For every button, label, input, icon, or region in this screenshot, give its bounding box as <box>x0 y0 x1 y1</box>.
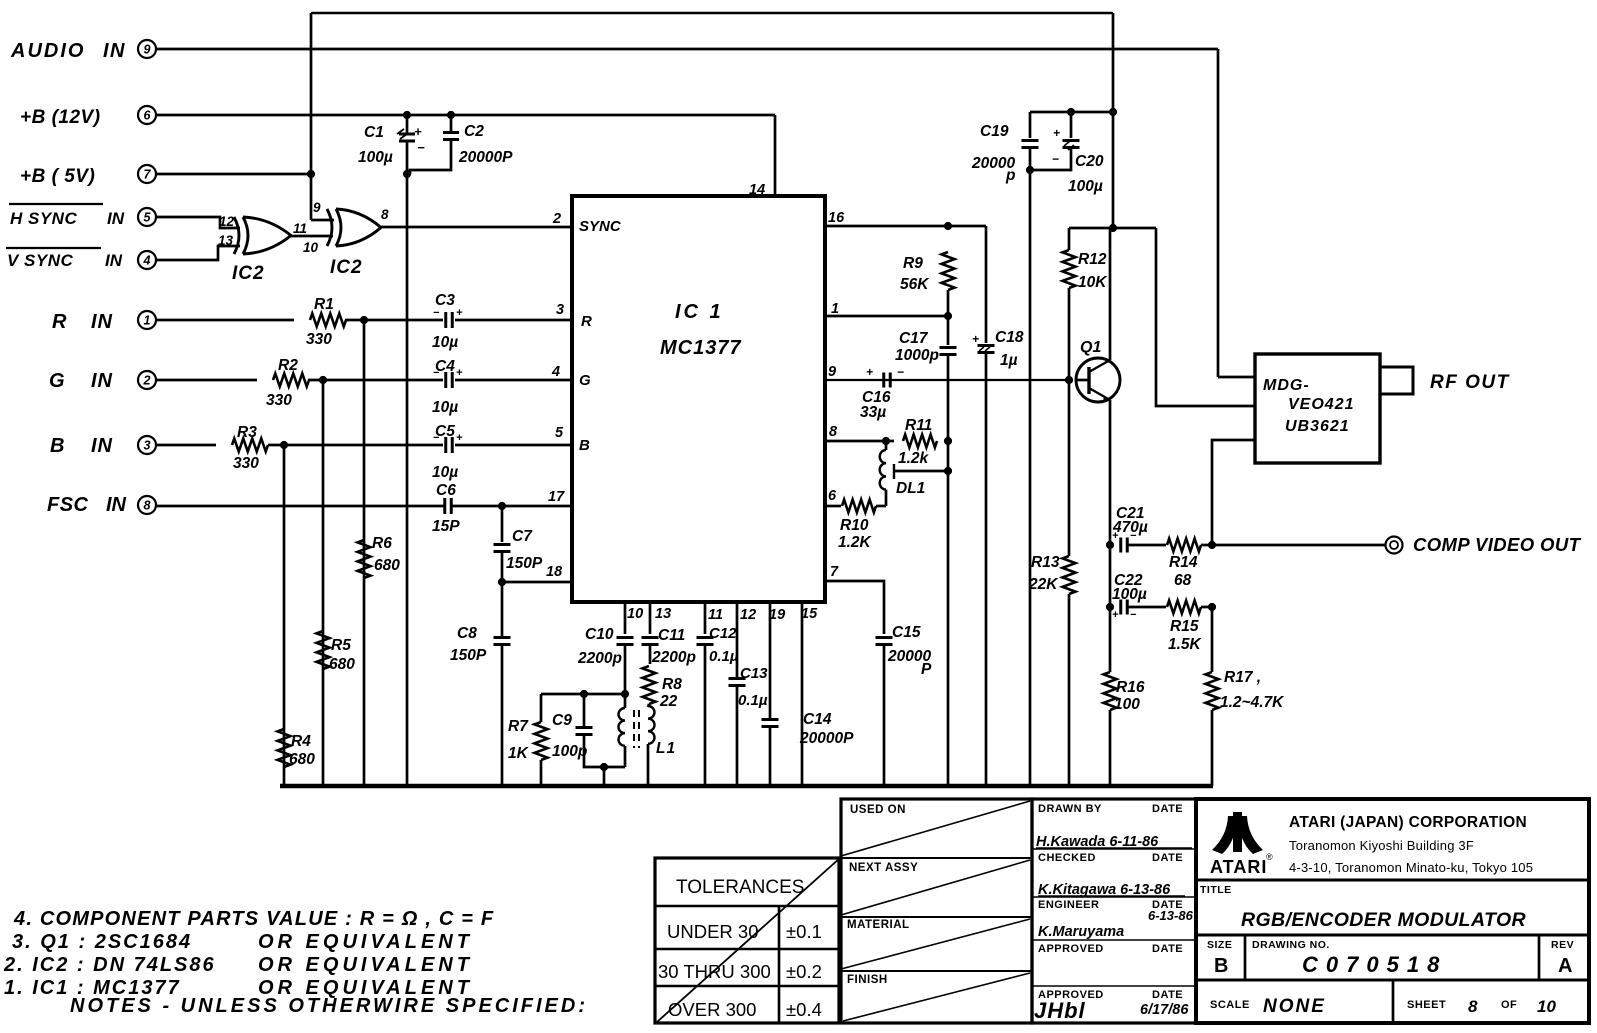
resistor R1 <box>310 314 346 327</box>
wire C13 to rail <box>736 686 739 786</box>
svg-text:R15: R15 <box>1170 618 1199 635</box>
wire Q1 emitter <box>1109 400 1112 545</box>
svg-text:+: + <box>866 365 873 379</box>
svg-text:IN: IN <box>105 251 123 270</box>
svg-text:®: ® <box>1266 852 1273 862</box>
junction C21 in <box>1106 541 1113 548</box>
junction DL1 top <box>882 437 889 444</box>
svg-text:DATE: DATE <box>1152 989 1183 1001</box>
svg-text:G: G <box>49 370 65 392</box>
wire emitter column C21-C22 <box>1109 545 1112 607</box>
svg-text:RF OUT: RF OUT <box>1430 372 1510 393</box>
svg-text:330: 330 <box>306 331 332 348</box>
svg-text:C3: C3 <box>435 292 455 309</box>
svg-text:1K: 1K <box>508 745 530 762</box>
wire R12 to base node <box>1068 288 1071 380</box>
capacitor C9 (100p) <box>576 726 593 729</box>
junction C20 top <box>1067 108 1074 115</box>
wire R14 to video node <box>1201 544 1212 547</box>
wire C9 bottom to ground tap <box>584 735 625 767</box>
wire C3 to pin3 <box>455 319 572 322</box>
svg-text:NONE: NONE <box>1263 996 1326 1017</box>
svg-text:B: B <box>50 435 64 457</box>
svg-text:2200p: 2200p <box>577 650 622 667</box>
junction C9 top <box>580 690 587 697</box>
svg-text:680: 680 <box>329 656 355 673</box>
svg-text:IN: IN <box>106 494 127 516</box>
gate IC2b XOR (pins 9,10,8) <box>327 209 332 246</box>
junction x1113 at C19 rail <box>1109 108 1116 115</box>
svg-text:DRAWING NO.: DRAWING NO. <box>1252 939 1330 951</box>
svg-text:R2: R2 <box>278 357 298 374</box>
svg-text:C8: C8 <box>457 625 477 642</box>
svg-text:680: 680 <box>289 751 315 768</box>
svg-text:Q1: Q1 <box>1080 339 1101 356</box>
wire pin10 column <box>624 602 627 634</box>
junction R node <box>360 316 367 323</box>
wire +5V vertical x1113 <box>1112 13 1115 228</box>
svg-text:B: B <box>1214 955 1228 977</box>
wire C9 column <box>583 694 586 727</box>
svg-text:OVER 300: OVER 300 <box>668 999 756 1020</box>
svg-text:1.2~4.7K: 1.2~4.7K <box>1220 694 1285 711</box>
svg-text:470µ: 470µ <box>1112 519 1148 536</box>
svg-text:6-13-86: 6-13-86 <box>1148 908 1194 923</box>
svg-text:±0.1: ±0.1 <box>786 921 822 942</box>
svg-text:SIZE: SIZE <box>1207 939 1232 951</box>
svg-text:R1: R1 <box>314 296 334 313</box>
svg-text:C10: C10 <box>585 626 614 643</box>
wire R2 to C4 <box>308 379 443 382</box>
svg-text:C17: C17 <box>899 330 929 347</box>
wire R7/C9/L1 tie <box>541 693 625 696</box>
svg-text:MATERIAL: MATERIAL <box>847 919 910 931</box>
svg-text:1.2K: 1.2K <box>838 534 873 551</box>
svg-text:8: 8 <box>1468 997 1478 1016</box>
resistor R7 <box>535 722 548 760</box>
wire DL1 tap <box>894 470 948 473</box>
svg-text:−: − <box>1130 609 1137 621</box>
resistor R11 <box>903 435 937 448</box>
wire R node dropper x364 <box>363 320 366 786</box>
svg-text:10µ: 10µ <box>432 399 458 416</box>
wire +5V vertical x311 <box>310 13 313 220</box>
junction FSC/C7 node <box>498 502 505 509</box>
wire audio in horizontal <box>156 48 1218 51</box>
wire R12 top rail <box>1069 227 1156 230</box>
junction pin18 node <box>498 578 505 585</box>
capacitor C6 (15P) <box>443 498 446 514</box>
svg-text:4: 4 <box>143 254 151 268</box>
svg-text:L1: L1 <box>656 740 676 757</box>
svg-text:6/17/86: 6/17/86 <box>1140 1002 1189 1018</box>
svg-text:R3: R3 <box>237 424 257 441</box>
used-on box frame <box>841 799 1032 1023</box>
svg-text:100p: 100p <box>552 743 587 760</box>
svg-text:15P: 15P <box>432 518 460 535</box>
wire gate1 output to gate2 pin10 <box>291 235 333 238</box>
wire R7 column top <box>540 694 543 722</box>
delay line DL1 <box>885 441 888 450</box>
junction DL1 tap ground <box>944 467 951 474</box>
svg-text:13: 13 <box>218 233 234 248</box>
wire B in <box>156 444 216 447</box>
resistor R15 <box>1167 601 1201 614</box>
svg-text:68: 68 <box>1174 572 1192 589</box>
svg-text:8: 8 <box>144 499 151 513</box>
wire C8 column <box>501 582 504 638</box>
node FSC IN terminal 8 <box>138 496 156 514</box>
wire C22 to R15 <box>1127 606 1166 609</box>
wire C17 to R11 node <box>947 355 950 441</box>
wire C6 to pin17 <box>452 505 572 508</box>
wire C11 to R8 <box>649 645 652 664</box>
wire C7 to pin18 node <box>501 551 504 582</box>
svg-text:33µ: 33µ <box>860 404 886 421</box>
capacitor C18 (1u electrolytic) <box>978 344 995 347</box>
tolerances diagonal <box>657 858 840 1022</box>
svg-text:10K: 10K <box>1078 274 1108 291</box>
node +B 5V terminal 7 <box>138 165 156 183</box>
svg-text:9: 9 <box>144 43 151 57</box>
svg-text:P: P <box>921 661 932 678</box>
svg-text:C11: C11 <box>658 627 685 644</box>
wire C18 column <box>985 226 988 343</box>
svg-text:5: 5 <box>144 211 152 225</box>
svg-text:11: 11 <box>708 607 723 623</box>
junction C19/C20 ground <box>1026 166 1033 173</box>
svg-text:R7: R7 <box>508 718 529 735</box>
resistor R12 <box>1068 228 1071 250</box>
svg-text:±0.4: ±0.4 <box>786 999 822 1020</box>
wire pin1 <box>825 315 948 318</box>
svg-text:14: 14 <box>749 182 765 198</box>
resistor R16 <box>1104 672 1117 710</box>
capacitor C17 (1000p) <box>940 346 957 349</box>
svg-text:+B (12V): +B (12V) <box>20 107 101 128</box>
svg-text:R17 ,: R17 , <box>1224 669 1261 686</box>
node B IN terminal 3 <box>138 436 156 454</box>
wire +5V to modulator <box>1156 228 1255 406</box>
wire R7 to rail <box>540 760 543 786</box>
svg-text:+: + <box>1053 126 1060 140</box>
wire R9 bottom to C17 <box>947 290 950 345</box>
wire R16 column <box>1109 607 1112 672</box>
wire R8 to L1 <box>648 704 649 707</box>
svg-text:R8: R8 <box>662 676 682 693</box>
svg-text:DRAWN BY: DRAWN BY <box>1038 803 1102 815</box>
svg-text:IC2: IC2 <box>232 263 265 284</box>
svg-text:DATE: DATE <box>1152 943 1183 955</box>
wire R15 to R17 node <box>1201 606 1212 609</box>
svg-text:B: B <box>579 437 590 454</box>
node V SYNC IN terminal 4 <box>138 251 156 269</box>
wire audio into modulator <box>1218 376 1255 379</box>
wire R9 column to rail <box>947 441 950 786</box>
svg-text:20000P: 20000P <box>799 730 854 747</box>
svg-text:R: R <box>581 313 592 330</box>
svg-text:1.2k: 1.2k <box>898 450 930 467</box>
svg-text:IN: IN <box>91 311 113 333</box>
capacitor C22 (100u electrolytic) <box>1119 600 1122 615</box>
signature box frame <box>1032 799 1196 1023</box>
wire audio vertical x1218 <box>1217 49 1220 377</box>
svg-text:K.Maruyama: K.Maruyama <box>1038 924 1124 940</box>
svg-text:REV: REV <box>1551 939 1574 951</box>
resistor R13 <box>1068 380 1071 556</box>
wire pin8 <box>825 440 894 443</box>
junction C2 top on 12V rail <box>447 111 454 118</box>
used-on diagonals <box>841 801 1030 856</box>
svg-text:DATE: DATE <box>1152 803 1183 815</box>
capacitor C14 (20000P) <box>762 718 779 721</box>
inductor L1 core <box>633 710 635 748</box>
svg-text:11: 11 <box>293 221 307 236</box>
wire ground column x407 <box>406 174 409 786</box>
svg-text:C2: C2 <box>464 123 484 140</box>
svg-text:SCALE: SCALE <box>1210 999 1250 1011</box>
resistor R9 <box>942 252 955 290</box>
capacitor C8 (150P) <box>494 636 511 639</box>
wire +5V top rail <box>311 12 1113 15</box>
capacitor C2 (20000P) <box>450 115 453 131</box>
wire R in <box>156 319 294 322</box>
svg-text:OF: OF <box>1501 999 1517 1011</box>
wire L1 ground tap to rail <box>603 767 606 786</box>
wire C4 to pin4 <box>455 379 572 382</box>
svg-text:3: 3 <box>144 439 151 453</box>
svg-text:APPROVED: APPROVED <box>1038 943 1104 955</box>
svg-text:15: 15 <box>801 606 818 622</box>
wire C12 to rail <box>704 645 707 786</box>
svg-text:8: 8 <box>829 424 838 440</box>
wire +B 12V horizontal <box>156 114 775 117</box>
svg-text:22: 22 <box>659 693 678 710</box>
junction +5V at x311 <box>307 170 314 177</box>
svg-text:ATARI (JAPAN) CORPORATION: ATARI (JAPAN) CORPORATION <box>1289 814 1527 831</box>
module RF connector tab <box>1380 367 1413 394</box>
svg-text:SHEET: SHEET <box>1407 999 1446 1011</box>
svg-text:R13: R13 <box>1031 554 1060 571</box>
svg-text:C13: C13 <box>740 665 768 682</box>
svg-text:6: 6 <box>828 488 837 504</box>
svg-text:Toranomon Kiyoshi Building 3F: Toranomon Kiyoshi Building 3F <box>1289 838 1474 853</box>
capacitor C19 (20000p) <box>1029 112 1032 138</box>
wire +B 5V horizontal <box>156 173 311 176</box>
wire Q1 collector <box>1109 228 1112 360</box>
svg-text:VEO421: VEO421 <box>1288 396 1354 413</box>
wire pin16 <box>825 225 986 228</box>
wire C14 to rail <box>769 727 772 786</box>
resistor R2 <box>273 374 309 387</box>
svg-text:+: + <box>414 124 422 139</box>
junction video node <box>1208 541 1215 548</box>
svg-text:C20: C20 <box>1075 153 1104 170</box>
resistor R4 <box>278 729 291 767</box>
wire pin9 into gate2 <box>311 219 334 222</box>
capacitor C11 (2200p) <box>642 636 659 639</box>
svg-text:10µ: 10µ <box>432 464 458 481</box>
svg-text:+: + <box>1112 609 1119 621</box>
svg-text:p: p <box>1005 167 1015 184</box>
svg-text:+: + <box>972 332 979 346</box>
svg-text:NOTES - UNLESS OTHERWIRE SPE: NOTES - UNLESS OTHERWIRE SPECIFIED: <box>70 995 588 1017</box>
svg-text:C14: C14 <box>803 711 832 728</box>
capacitor C7 (150P) <box>494 543 511 546</box>
wire pin11 column <box>704 602 707 634</box>
junction B node <box>280 441 287 448</box>
capacitor C5 (10u) <box>444 437 447 453</box>
svg-text:C1: C1 <box>364 124 384 141</box>
resistor R14 <box>1167 539 1201 552</box>
svg-text:MDG-: MDG- <box>1263 377 1310 394</box>
svg-text:100µ: 100µ <box>1068 178 1103 195</box>
capacitor C13 (0.1u) <box>729 677 746 680</box>
wire pin14 drop <box>774 115 777 196</box>
capacitor C12 (0.1u) <box>697 636 714 639</box>
svg-text:MC1377: MC1377 <box>660 337 742 359</box>
svg-text:FSC: FSC <box>47 494 89 516</box>
svg-text:2: 2 <box>552 211 561 227</box>
svg-text:150P: 150P <box>450 647 487 664</box>
svg-text:2. IC2 : DN 74LS86: 2. IC2 : DN 74LS86 <box>3 954 216 976</box>
capacitor C1 (100u electrolytic) <box>406 115 409 133</box>
capacitor C10 (2200p) <box>617 636 634 639</box>
wire R10 to DL1 <box>876 505 886 508</box>
junction G node <box>319 376 326 383</box>
wire video node to modulator <box>1212 440 1255 545</box>
svg-text:1: 1 <box>144 314 151 328</box>
wire gate2 output to IC1 pin2 <box>381 226 572 229</box>
svg-text:JHbl: JHbl <box>1034 998 1086 1023</box>
wire pin6 <box>825 505 841 508</box>
capacitor C21 (470u electrolytic) <box>1119 538 1122 553</box>
wire FSC in <box>156 505 444 508</box>
wire pin19 column <box>769 602 772 719</box>
wire H sync to gate <box>156 217 240 228</box>
svg-text:8: 8 <box>381 207 389 222</box>
svg-text:4: 4 <box>551 364 560 380</box>
svg-text:6: 6 <box>144 109 152 123</box>
svg-text:17: 17 <box>548 489 565 505</box>
svg-text:C12: C12 <box>709 625 737 642</box>
svg-text:2200p: 2200p <box>651 649 696 666</box>
wire R17 column <box>1211 607 1214 672</box>
svg-text:R10: R10 <box>840 517 869 534</box>
svg-text:+: + <box>456 307 463 319</box>
node AUDIO IN terminal 9 <box>138 40 156 58</box>
svg-text:10: 10 <box>627 606 643 622</box>
svg-text:RGB/ENCODER MODULATOR: RGB/ENCODER MODULATOR <box>1241 909 1526 931</box>
svg-text:150P: 150P <box>506 555 543 572</box>
junction C1/C2 bottom to ground column <box>403 170 410 177</box>
svg-text:DL1: DL1 <box>896 480 925 497</box>
junction L1 top node <box>621 690 628 697</box>
svg-text:−: − <box>417 140 425 155</box>
wire C19 column to rail <box>1029 170 1032 786</box>
svg-text:19: 19 <box>769 607 785 623</box>
wire C21 to R14 <box>1127 544 1166 547</box>
svg-text:9: 9 <box>313 200 321 215</box>
svg-text:IN: IN <box>107 209 125 228</box>
wire pin18 <box>502 581 572 584</box>
wire R16 to rail <box>1109 710 1112 786</box>
svg-text:A: A <box>1558 955 1572 977</box>
svg-text:USED ON: USED ON <box>850 804 906 816</box>
svg-text:H SYNC: H SYNC <box>10 209 77 228</box>
svg-text:UB3621: UB3621 <box>1285 418 1350 435</box>
svg-text:100: 100 <box>1114 696 1140 713</box>
svg-text:COMP VIDEO OUT: COMP VIDEO OUT <box>1413 534 1582 555</box>
svg-text:1µ: 1µ <box>1000 352 1018 369</box>
wire pin15 column <box>801 602 804 786</box>
wire pin9 to Q1 base <box>825 379 1069 381</box>
junction C22 in <box>1106 603 1113 610</box>
svg-text:G: G <box>579 372 591 389</box>
svg-text:+B ( 5V): +B ( 5V) <box>20 166 95 187</box>
svg-text:OR EQUIVALENT: OR EQUIVALENT <box>258 931 473 953</box>
wire C15 to rail <box>883 645 886 786</box>
tolerances table frame <box>655 858 839 1023</box>
wire C18 to rail <box>985 353 988 786</box>
svg-text:R4: R4 <box>291 733 311 750</box>
svg-text:C7: C7 <box>512 528 533 545</box>
svg-text:ENGINEER: ENGINEER <box>1038 899 1099 911</box>
inductor L1 primary (left winding) <box>624 694 627 708</box>
svg-text:20000P: 20000P <box>458 149 513 166</box>
svg-text:R6: R6 <box>372 535 392 552</box>
svg-text:TOLERANCES: TOLERANCES <box>676 877 804 898</box>
svg-text:IN: IN <box>103 40 126 62</box>
junction pin1/R9/C17 node <box>944 312 951 319</box>
wire R3 to C5 <box>268 444 443 447</box>
svg-text:16: 16 <box>828 210 845 226</box>
capacitor C4 (10u) <box>444 372 447 388</box>
svg-text:SYNC: SYNC <box>579 218 622 235</box>
junction R9 top <box>944 222 951 229</box>
wire ground rail <box>280 784 1213 789</box>
svg-text:13: 13 <box>655 606 671 622</box>
svg-text:R9: R9 <box>903 255 923 272</box>
svg-text:10: 10 <box>303 240 319 255</box>
svg-text:NEXT ASSY: NEXT ASSY <box>849 862 918 874</box>
svg-text:0.1µ: 0.1µ <box>709 648 739 665</box>
svg-text:680: 680 <box>374 557 400 574</box>
junction R11 right <box>944 437 951 444</box>
wire R1 to C3 <box>345 319 443 322</box>
svg-text:C19: C19 <box>980 123 1009 140</box>
svg-text:7: 7 <box>830 564 839 580</box>
resistor R6 <box>358 540 371 578</box>
op-amp U1 IC1 MC1377 body <box>572 196 825 602</box>
wire V sync to gate <box>156 246 240 260</box>
capacitor C16 (33u electrolytic) <box>882 373 885 388</box>
wire B node dropper x284 <box>283 445 286 786</box>
resistor R8 <box>643 666 656 704</box>
svg-text:R: R <box>52 311 67 333</box>
resistor R5 <box>317 631 330 669</box>
wire C10 to L1 node <box>624 645 627 694</box>
svg-text:R5: R5 <box>331 637 351 654</box>
svg-text:ATARI: ATARI <box>1210 857 1267 877</box>
svg-text:R16: R16 <box>1116 679 1145 696</box>
svg-text:C18: C18 <box>995 329 1024 346</box>
svg-text:IN: IN <box>91 435 113 457</box>
inductor L1 secondary (right winding) <box>648 706 655 744</box>
svg-text:C070518: C070518 <box>1302 952 1447 977</box>
wire comp video out <box>1212 544 1386 547</box>
node G IN terminal 2 <box>138 371 156 389</box>
